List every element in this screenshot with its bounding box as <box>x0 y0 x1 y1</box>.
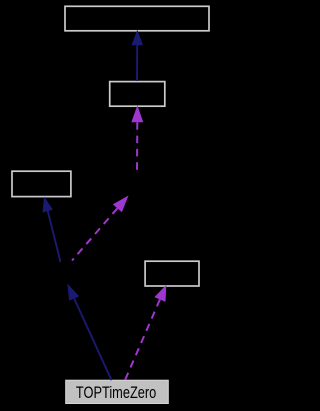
node: right class box <box>145 261 199 286</box>
node: left base-class box <box>12 171 71 196</box>
svg-text:TOPTimeZero: TOPTimeZero <box>76 383 156 402</box>
edge: dashed usage arrow, junction label up-right to mid label <box>72 196 129 261</box>
edge: solid inheritance arrow, second box to top box <box>132 30 144 81</box>
edge: solid inheritance arrow, TOPTimeZero to junction label <box>67 284 111 381</box>
node: top base-class box <box>65 6 209 31</box>
edge: dashed usage arrow, vertical to second box <box>131 105 143 171</box>
node: TOPTimeZero current-class box <box>66 380 169 403</box>
edge: solid inheritance arrow, junction label to left box <box>43 197 61 262</box>
edge: dashed usage arrow, TOPTimeZero to right box <box>125 285 166 380</box>
node: second-level class box <box>110 82 165 107</box>
